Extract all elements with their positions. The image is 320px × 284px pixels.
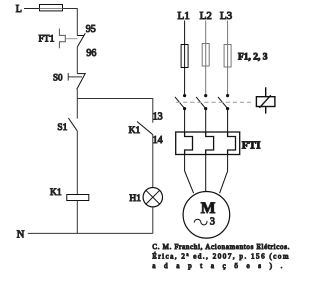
svg-text:K1: K1 [50, 188, 62, 198]
wire [76, 47, 78, 74]
wire [76, 89, 78, 98]
svg-text:H1: H1 [129, 194, 141, 204]
svg-text:S1: S1 [57, 123, 67, 133]
svg-text:L1: L1 [177, 10, 189, 22]
motor M [183, 192, 230, 239]
coil K1 [67, 195, 89, 201]
wire [76, 201, 78, 234]
fuse F3 [224, 45, 231, 68]
main contact K1 pole 1 [175, 94, 186, 132]
svg-text:FTI: FTI [242, 139, 261, 151]
wire to motor left [185, 155, 194, 194]
wire [152, 135, 154, 188]
svg-text:C. M. Franchi, Acionamentos El: C. M. Franchi, Acionamentos Elétricos. [152, 243, 289, 251]
svg-text:F1, 2, 3: F1, 2, 3 [238, 53, 268, 63]
actuator K1 power [256, 87, 275, 113]
svg-text:K1: K1 [129, 126, 141, 136]
svg-text:M: M [201, 200, 216, 217]
svg-text:14: 14 [153, 135, 163, 146]
svg-text:95: 95 [86, 24, 96, 35]
heater element 1 [185, 132, 193, 155]
mechanical link FT1 [65, 38, 77, 40]
svg-text:N: N [17, 230, 25, 241]
lamp H1 [143, 188, 162, 207]
main contact K1 pole 2 [196, 94, 207, 132]
svg-text:a d a p t a ç õ e s ) .: a d a p t a ç õ e s ) . [152, 262, 282, 270]
heater element 2 [206, 132, 214, 155]
wire L1 [184, 21, 186, 95]
contact FT1 moving arm [77, 33, 85, 47]
main contact K1 pole 3 [218, 94, 229, 132]
svg-text:L: L [16, 4, 22, 15]
wire [63, 9, 78, 36]
pushbutton S0 moving arm [77, 73, 86, 89]
wire branch to seal-in [77, 99, 153, 123]
svg-text:13: 13 [153, 112, 163, 123]
fuse F (control line) [40, 5, 63, 11]
fuse F2 [202, 44, 209, 67]
svg-text:96: 96 [86, 48, 96, 59]
fuse F1 [181, 45, 188, 68]
motor AC symbol [194, 219, 207, 225]
svg-text:S0: S0 [53, 72, 63, 82]
svg-text:FT1: FT1 [39, 35, 55, 45]
contact K1 13-14 moving arm [137, 122, 153, 135]
heater element 3 [228, 132, 236, 155]
wire L3 [227, 21, 229, 95]
wire [76, 99, 78, 119]
pushbutton S1 moving arm [68, 118, 77, 131]
pushbutton S0 seat [77, 73, 85, 75]
svg-text:Érica, 2ª ed., 2007, p. 156 (c: Érica, 2ª ed., 2007, p. 156 (com [152, 253, 289, 261]
wire [152, 207, 154, 234]
overload relay FTI box [176, 132, 240, 155]
svg-text:3: 3 [210, 216, 215, 227]
wire L2 [205, 21, 207, 95]
wire to motor middle [205, 155, 207, 192]
wire N rail [28, 232, 153, 234]
wire to motor right [220, 155, 228, 194]
mechanical link dashed [176, 101, 251, 103]
contact FT1 seat [77, 35, 84, 37]
thermal element FT1 [59, 29, 65, 49]
wire [76, 131, 78, 195]
wire [24, 8, 40, 10]
svg-text:L3: L3 [220, 10, 233, 22]
pushbutton S0 actuator [68, 73, 82, 81]
svg-text:L2: L2 [200, 10, 212, 22]
